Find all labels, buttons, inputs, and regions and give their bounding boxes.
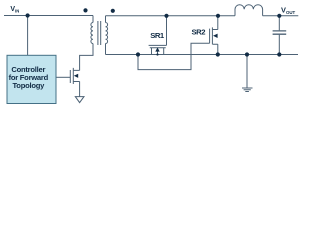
transistor SR2 gate/channel [210, 27, 218, 44]
wire: secondary top lead [105, 16, 107, 23]
transformer T1 primary winding [91, 23, 93, 44]
wire: primary top lead [92, 16, 94, 23]
wire: ground lead right [246, 55, 248, 88]
wire: Q1 source to ground [79, 82, 81, 97]
transformer primary phase dot [83, 8, 87, 12]
wire: V_IN junction to controller top [27, 16, 29, 56]
node: cap bottom / bottom rail junction dot [277, 52, 281, 56]
wire: controller gate drive to Q1 [56, 76, 70, 78]
transistor SR2 gate drive loop [138, 43, 210, 69]
node: SR1 gate / top rail junction dot [164, 14, 168, 18]
wire: output top rail [263, 15, 299, 17]
wire: primary bottom lead to Q1 drain [80, 44, 93, 71]
node: output cap top junction dot [277, 14, 281, 18]
transistor Q1 (primary MOSFET) gate/channel [70, 68, 79, 84]
transistor SR1 body arrow [155, 47, 159, 51]
transformer T1 core [98, 21, 101, 45]
inductor L1 [235, 5, 263, 16]
svg-text:SR1: SR1 [150, 31, 165, 40]
controller U1 box [7, 55, 56, 103]
wire: secondary top rail [106, 15, 236, 17]
node: SR2 source / bottom rail junction dot [216, 52, 220, 56]
transistor SR1 gate plate and channel [149, 16, 167, 55]
transistor Q1 body arrow [74, 74, 78, 78]
wire: SR2 drain lead [217, 16, 219, 30]
svg-text:VOUT: VOUT [281, 5, 296, 15]
wire: secondary bottom rail [106, 54, 299, 56]
capacitor C1 leads [278, 16, 280, 55]
wire: SR2 source lead [217, 44, 219, 54]
capacitor C1 plates [273, 31, 287, 34]
transformer secondary phase dot [111, 9, 115, 13]
node: SR2 drain / top rail junction dot [216, 14, 220, 18]
node: V_IN junction dot [26, 13, 30, 17]
wire: input top rail [4, 15, 93, 17]
node: SR1 body / bottom rail junction dot [156, 53, 158, 55]
svg-text:Topology: Topology [12, 81, 45, 90]
svg-text:VIN: VIN [10, 6, 19, 14]
ground (earth bars) right [242, 88, 253, 92]
transformer T1 secondary winding [106, 23, 108, 44]
wire: secondary bottom lead [105, 44, 107, 55]
node: ground / bottom rail junction dot [245, 52, 249, 56]
transistor SR1 body stem [157, 51, 159, 55]
ground (triangle) under Q1 [75, 97, 84, 103]
node: SR2 gate drive / bottom rail junction dot [136, 52, 140, 56]
transistor SR2 body arrow [213, 34, 218, 38]
svg-text:SR2: SR2 [192, 28, 206, 37]
